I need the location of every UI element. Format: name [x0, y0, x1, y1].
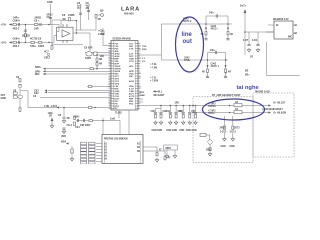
svg-text:C9 03R: C9 03R [84, 47, 93, 50]
svg-text:3R02: 3R02 [220, 128, 226, 130]
svg-text:MIC: MIC [288, 37, 293, 39]
svg-text:C97: C97 [191, 111, 196, 113]
svg-text:4R2-2: 4R2-2 [13, 27, 20, 30]
svg-text:IN: IN [276, 25, 279, 27]
svg-text:VU: VU [77, 7, 81, 10]
svg-text:GND: GND [221, 146, 226, 148]
svg-text:LARA: LARA [121, 7, 140, 13]
svg-text:4C7: 4C7 [44, 51, 49, 54]
svg-text:line: line [182, 32, 193, 38]
svg-text:GND: GND [166, 130, 171, 132]
svg-text:4R: 4R [201, 33, 204, 36]
svg-text:24DB: 24DB [68, 14, 75, 17]
svg-text:4R: 4R [230, 33, 233, 36]
svg-text:4R2-1: 4R2-1 [13, 45, 20, 48]
svg-text:4R1C+: 4R1C+ [211, 27, 219, 30]
svg-text:C98: C98 [151, 111, 156, 113]
svg-text:= 7.0k: = 7.0k [150, 64, 157, 66]
svg-text:GND: GND [186, 130, 191, 132]
svg-text:C8-3: C8-3 [67, 124, 73, 127]
svg-text:3DT2: 3DT2 [234, 128, 240, 130]
svg-text:AGN: AGN [129, 80, 134, 83]
svg-text:7.0E_1.8V4: 7.0E_1.8V4 [44, 105, 58, 108]
svg-text:4R: 4R [228, 71, 231, 74]
svg-text:(+) BEGI/HEADSET: (+) BEGI/HEADSET [262, 108, 283, 111]
svg-text:MIC: MIC [35, 73, 40, 76]
svg-text:3-DT: 3-DT [243, 40, 249, 42]
svg-text:M2+: M2+ [245, 75, 250, 77]
svg-text:>3*9-: >3*9- [1, 41, 7, 44]
svg-text:NC: NC [115, 108, 119, 110]
svg-text:GND: GND [230, 146, 235, 148]
svg-text:34R+: 34R+ [30, 45, 37, 48]
svg-text:GND: GND [1, 97, 7, 100]
svg-text:M2-: M2- [245, 71, 249, 73]
svg-text:3R: 3R [49, 116, 52, 118]
svg-text:C94: C94 [166, 110, 171, 113]
svg-text:7R46+: 7R46+ [208, 112, 215, 115]
svg-text:14DB: 14DB [98, 33, 105, 36]
svg-text:D+ HIL8/2M: D+ HIL8/2M [274, 113, 287, 115]
svg-text:TXD: TXD [142, 46, 147, 48]
svg-text:SPK+: SPK+ [35, 66, 42, 69]
svg-text:GE3E8A PB4/HB: GE3E8A PB4/HB [113, 37, 131, 40]
svg-text:CTS: CTS [129, 48, 134, 50]
svg-text:PREFAB C92 MBEAM: PREFAB C92 MBEAM [104, 138, 128, 141]
svg-text:ANTC 1: ANTC 1 [211, 65, 220, 68]
svg-text:24R: 24R [34, 27, 39, 30]
svg-text:1R8: 1R8 [175, 103, 180, 105]
svg-text:C684+: C684+ [13, 20, 21, 23]
svg-text:GND: GND [192, 130, 197, 132]
svg-text:3-D2: 3-D2 [252, 40, 258, 42]
svg-text:240+: 240+ [210, 49, 216, 52]
svg-text:MBR: MBR [166, 148, 172, 150]
svg-text:34R2: 34R2 [38, 45, 45, 48]
svg-text:34R2: 34R2 [85, 57, 92, 60]
svg-text:3R: 3R [67, 117, 70, 120]
svg-text:4708+: 4708+ [184, 59, 191, 62]
svg-text:3R02: 3R02 [206, 150, 212, 152]
svg-text:= SL1: = SL1 [156, 92, 163, 94]
svg-text:MAX9876 3.3V: MAX9876 3.3V [273, 18, 289, 21]
svg-text:400-900: 400-900 [124, 12, 134, 16]
svg-text:GND: GND [157, 130, 162, 132]
svg-text:= 7.0M: = 7.0M [150, 68, 157, 70]
svg-text:MDA: MDA [61, 141, 67, 144]
svg-text:TL062: TL062 [115, 113, 122, 115]
svg-text:C4M: C4M [140, 94, 145, 97]
svg-text:1mB: 1mB [110, 119, 115, 121]
svg-text:= 7.0L: = 7.0L [150, 78, 157, 80]
svg-text:VCH: VCH [129, 61, 134, 63]
svg-text:= 7.0R9: = 7.0R9 [150, 81, 159, 83]
svg-text:4R: 4R [202, 71, 205, 74]
svg-text:HPL: HPL [129, 66, 134, 68]
svg-text:4R: 4R [98, 18, 101, 21]
svg-text:= GANT: = GANT [156, 94, 165, 97]
svg-text:(3R): (3R) [61, 135, 66, 138]
svg-text:D+ HIL2/27: D+ HIL2/27 [274, 103, 287, 105]
svg-text:BT_AMP HEADSET C924T: BT_AMP HEADSET C924T [212, 94, 241, 97]
svg-text:38-382: 38-382 [22, 35, 30, 38]
svg-text:C684+: C684+ [13, 38, 21, 41]
svg-text:>3*9-: >3*9- [1, 24, 7, 27]
svg-text:3-D13: 3-D13 [230, 132, 237, 134]
svg-text:MIC: MIC [129, 76, 133, 78]
svg-text:tai nghe: tai nghe [237, 85, 260, 91]
svg-text:RXD: RXD [142, 49, 147, 51]
svg-text:240+: 240+ [209, 12, 215, 15]
svg-text:C96: C96 [179, 111, 184, 113]
svg-text:GND: GND [172, 130, 177, 132]
svg-text:4R: 4R [99, 58, 102, 61]
svg-text:4R: 4R [99, 63, 102, 66]
svg-text:3B: 3B [86, 7, 89, 10]
svg-text:7R462+: 7R462+ [208, 105, 217, 108]
svg-text:C941: C941 [74, 116, 80, 119]
svg-text:34R+: 34R+ [13, 17, 20, 20]
svg-text:34R 34R2: 34R 34R2 [80, 124, 91, 127]
svg-text:C8 +: C8 + [34, 20, 40, 23]
svg-text:out: out [183, 39, 192, 45]
svg-text:1R: 1R [250, 57, 253, 59]
svg-text:3-D12: 3-D12 [220, 132, 227, 134]
svg-text:3mT+: 3mT+ [240, 6, 247, 8]
svg-text:GND: GND [179, 130, 184, 132]
svg-text:ANTC 2: ANTC 2 [183, 20, 192, 23]
svg-text:4C738: 4C738 [30, 38, 38, 41]
svg-text:GND: GND [47, 1, 53, 4]
svg-text:24DB: 24DB [35, 17, 42, 20]
